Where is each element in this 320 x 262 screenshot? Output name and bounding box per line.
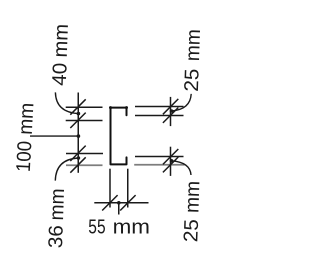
svg-text:25: 25 xyxy=(180,219,203,243)
svg-text:25: 25 xyxy=(181,68,204,92)
svg-text:100: 100 xyxy=(13,140,37,172)
svg-text:mm: mm xyxy=(15,102,39,135)
svg-text:mm: mm xyxy=(50,24,73,58)
svg-text:36: 36 xyxy=(45,225,68,249)
svg-text:mm: mm xyxy=(181,181,204,214)
svg-text:mm: mm xyxy=(113,217,150,239)
svg-text:55: 55 xyxy=(88,217,105,239)
svg-text:40: 40 xyxy=(49,62,72,86)
svg-text:mm: mm xyxy=(182,29,205,62)
svg-text:mm: mm xyxy=(46,188,69,221)
